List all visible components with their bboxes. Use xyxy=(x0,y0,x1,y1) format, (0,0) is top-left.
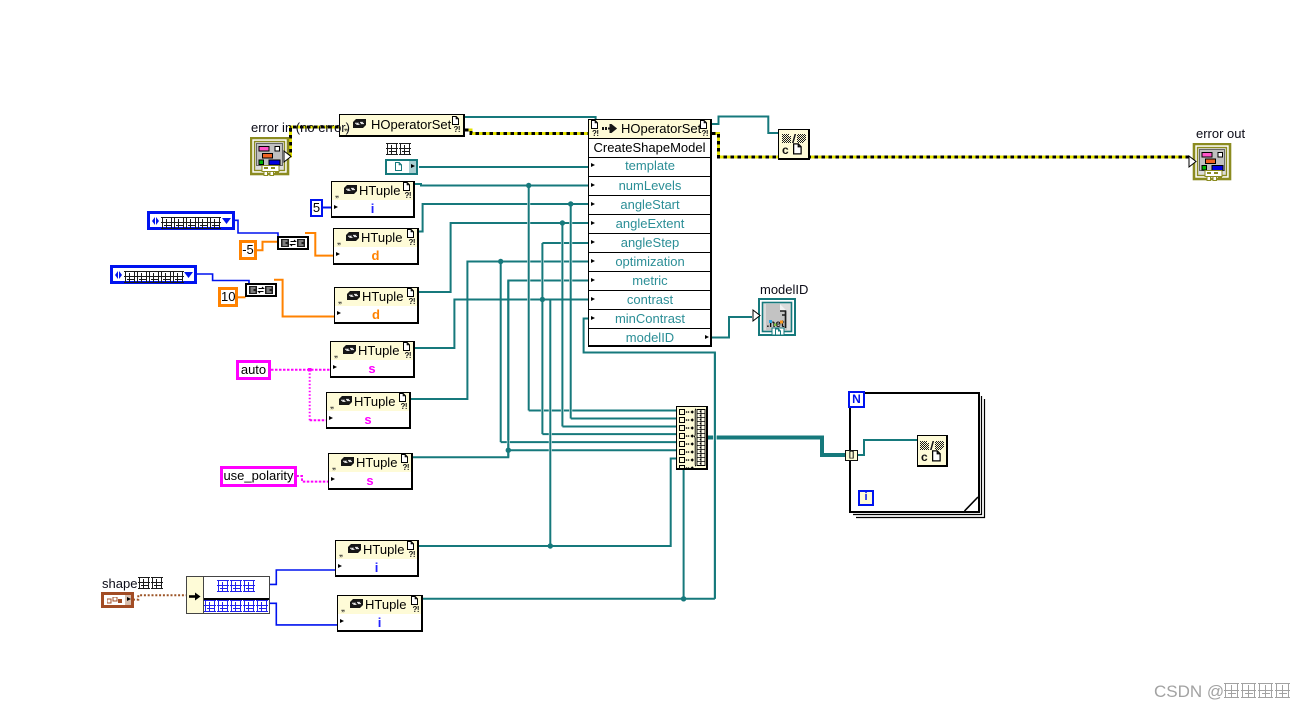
constructor HTuple optimization xyxy=(326,392,411,429)
constant auto xyxy=(236,360,271,380)
wire conv1 to HTuple d xyxy=(305,233,333,256)
field 对比度 xyxy=(204,577,269,600)
wire build row3 xyxy=(562,426,676,428)
pin template xyxy=(589,157,711,176)
crossing gaps xyxy=(507,202,717,452)
wire unbundle minContrast to HTuple i xyxy=(270,603,337,625)
pin modelID out xyxy=(589,328,711,348)
N count terminal xyxy=(848,391,865,408)
blue wires xyxy=(197,208,338,625)
i iteration terminal xyxy=(858,490,874,506)
loop tunnel xyxy=(845,450,858,461)
rows of U2 xyxy=(589,157,711,347)
pin numLevels xyxy=(589,176,711,196)
constructor HTuple metric xyxy=(328,453,413,490)
error in cluster xyxy=(251,121,350,134)
wire HTuple i minContrast out xyxy=(423,598,715,600)
indicator modelID (.net refnum) xyxy=(760,283,808,296)
wire build row1 xyxy=(529,410,676,412)
constant use_polarity xyxy=(220,466,297,487)
header xyxy=(589,120,710,139)
unbundle by name node xyxy=(186,576,270,614)
control 图片 (image refnum) xyxy=(386,143,412,156)
wire optimization xyxy=(411,262,588,400)
wire minContrast riser xyxy=(584,319,715,599)
wire ring2 to conv2 xyxy=(197,274,250,283)
wire metric xyxy=(413,281,588,458)
wire angleStart xyxy=(415,204,588,232)
pin angleExtent xyxy=(589,214,711,234)
error wire: CreateShapeModel to error out xyxy=(712,134,1189,158)
constructor HTuple contrast xyxy=(335,540,419,577)
wire inside for loop xyxy=(858,440,917,455)
wire auto to HTuple s (squiggle) xyxy=(271,369,330,371)
wire HOperatorSet1 out xyxy=(465,117,596,121)
wire contrast xyxy=(415,300,588,349)
wire 10 to conv2 xyxy=(238,296,246,298)
teal wires: verticals over gaps xyxy=(501,186,715,599)
ring constant 角度转弧度 R1 xyxy=(147,211,235,230)
wire build row5 xyxy=(501,441,676,443)
wire numLevels xyxy=(415,184,588,186)
wire build row7 from HTuple i contrast xyxy=(419,459,676,547)
wire use_polarity to HTuple s xyxy=(296,476,328,482)
ring constant 角度转弧度 R2 xyxy=(110,265,197,284)
watermark xyxy=(1154,683,1292,700)
wire build row2 xyxy=(571,418,676,420)
wire 5 to HTuple i xyxy=(323,207,331,209)
wire build row6 xyxy=(508,449,676,451)
constructor HTuple angleStart xyxy=(333,228,419,265)
orange wires xyxy=(238,233,334,317)
wire angleExtent xyxy=(419,223,588,292)
pin optimization xyxy=(589,252,711,272)
control shape参数 (cluster) xyxy=(102,577,164,590)
error wire: HOperatorSet1 to CreateShapeModel xyxy=(465,130,588,134)
wire modelID to indicator xyxy=(712,317,752,338)
node: close/free icon C2 inside loop xyxy=(917,435,948,467)
thick array wire xyxy=(708,438,845,456)
wire CreateShapeModel out to close icon xyxy=(712,117,778,134)
wire angleStep xyxy=(542,242,588,244)
pin contrast xyxy=(589,290,711,310)
op-node U2 HOperatorSet CreateShapeModel xyxy=(588,119,712,347)
conversion node X2 (deg to rad) xyxy=(245,283,277,297)
field 最小对比度 xyxy=(204,597,269,616)
teal wires: horizontals xyxy=(411,117,917,599)
wire conv2 to HTuple d xyxy=(274,280,334,317)
brown cluster wire xyxy=(133,595,187,599)
magenta string wires xyxy=(271,370,330,482)
junction dots xyxy=(498,183,686,602)
constructor HTuple angleStep xyxy=(330,341,415,378)
constant -5 xyxy=(239,240,257,260)
pin minContrast xyxy=(589,309,711,329)
constructor HTuple angleExtent xyxy=(334,287,419,324)
constant 10 xyxy=(218,287,238,307)
input arrow xyxy=(189,592,201,601)
wire template xyxy=(419,166,588,168)
error out cluster xyxy=(1196,127,1245,140)
constructor HTuple minContrast xyxy=(337,595,423,632)
wire build row4 xyxy=(542,433,676,435)
for loop N structure xyxy=(847,390,988,521)
constant 5 xyxy=(310,199,323,217)
node: close/free icon C1 xyxy=(778,129,810,160)
page fold corner xyxy=(965,498,978,511)
pin metric xyxy=(589,271,711,291)
op-node U1 HOperatorSet (constructor) xyxy=(339,114,465,137)
pin angleStep xyxy=(589,233,711,253)
build array node xyxy=(676,406,708,470)
error wire: error in cluster to HOperatorSet 1 xyxy=(287,127,339,156)
conversion node X1 (deg to rad) xyxy=(277,236,309,250)
constructor HTuple numLevels xyxy=(331,181,415,218)
wire -5 to conv1 xyxy=(256,242,277,250)
pin angleStart xyxy=(589,195,711,215)
wire unbundle contrast to HTuple i xyxy=(270,570,335,584)
wire ring1 to conv1 xyxy=(235,220,278,236)
